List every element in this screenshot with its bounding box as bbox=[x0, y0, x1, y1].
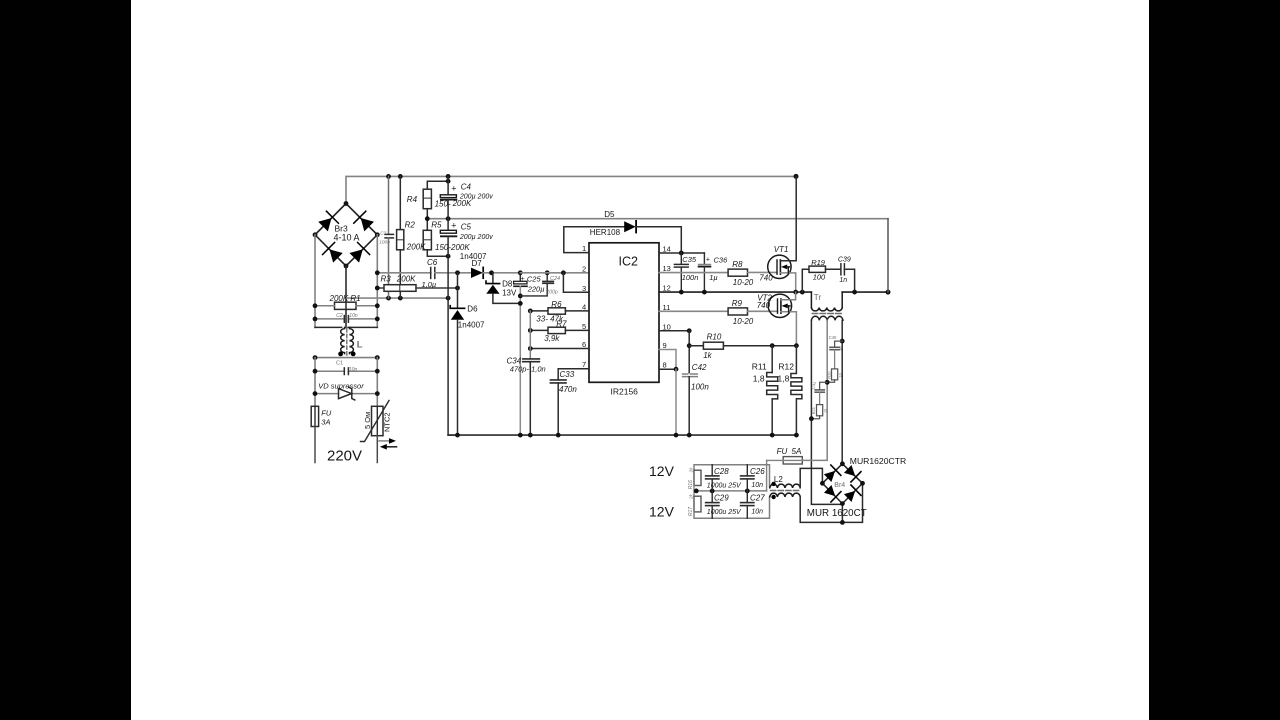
Br3 diode lower-left bbox=[323, 242, 344, 263]
capacitor C3 bbox=[388, 176, 390, 234]
svg-text:10-20: 10-20 bbox=[733, 317, 754, 326]
node mid/C26 bbox=[745, 489, 750, 494]
svg-text:220V: 220V bbox=[327, 448, 362, 465]
node mid/C36 bbox=[702, 290, 707, 295]
node Br4 top bbox=[840, 461, 845, 466]
node L polarity dot right bbox=[351, 352, 356, 357]
wire pin6 bbox=[530, 348, 589, 350]
svg-text:C36: C36 bbox=[714, 255, 729, 264]
zener D8 13V bbox=[492, 273, 494, 284]
node L2 top polarity dot bbox=[771, 482, 775, 486]
node C1 left bbox=[313, 369, 318, 374]
op-amp IC2 body bbox=[589, 243, 659, 382]
node gnd/R11 bbox=[770, 433, 775, 438]
capacitor C25 electrolytic bbox=[519, 273, 521, 282]
svg-text:12V: 12V bbox=[649, 504, 675, 520]
Br4 diode lower-left bbox=[823, 484, 841, 502]
svg-text:8: 8 bbox=[663, 361, 667, 370]
capacitor C34 bbox=[523, 358, 540, 360]
capacitor C28 bbox=[711, 465, 713, 476]
svg-text:1000u 25V: 1000u 25V bbox=[707, 509, 742, 516]
thermistor NTC2 bbox=[372, 406, 384, 435]
svg-text:VD supressor: VD supressor bbox=[318, 381, 364, 390]
svg-text:+: + bbox=[451, 183, 456, 193]
transistor VT1 mosfet bbox=[768, 255, 791, 278]
transformer Tr primary bbox=[810, 292, 812, 308]
node R3 left rail bbox=[375, 286, 380, 291]
svg-text:10n: 10n bbox=[751, 482, 763, 489]
wire pin13 gate row VT1 bbox=[659, 272, 728, 274]
svg-text:12: 12 bbox=[663, 284, 671, 293]
wire 12V block top bbox=[694, 465, 770, 487]
svg-text:VT1: VT1 bbox=[774, 245, 789, 254]
svg-text:D6: D6 bbox=[467, 305, 478, 314]
wire right AC rail upper bbox=[376, 235, 378, 328]
capacitor C41 bbox=[820, 382, 828, 389]
svg-text:FU: FU bbox=[321, 409, 332, 418]
svg-text:1,8: 1,8 bbox=[778, 373, 790, 383]
bridge Br3 diamond outline bbox=[315, 204, 377, 267]
svg-text:200K R1: 200K R1 bbox=[329, 294, 361, 303]
svg-text:C25: C25 bbox=[527, 275, 542, 284]
node Br4 left bbox=[820, 481, 825, 486]
node C1 right bbox=[375, 369, 380, 374]
resistor R7 bbox=[530, 329, 548, 331]
transformer Tr secondary right bbox=[827, 316, 843, 320]
node main/D8 bbox=[489, 270, 494, 275]
node Br3 right bbox=[375, 232, 380, 237]
svg-text:C28: C28 bbox=[714, 467, 729, 476]
svg-text:4-10 A: 4-10 A bbox=[334, 233, 360, 243]
svg-text:1µ: 1µ bbox=[709, 273, 718, 282]
resistor R10 bbox=[689, 345, 703, 347]
node y298/bus bbox=[446, 296, 451, 301]
node C42/R10 bbox=[687, 343, 692, 348]
svg-text:100: 100 bbox=[813, 272, 826, 281]
node R7 left bbox=[528, 328, 533, 333]
node Br3 left bbox=[313, 232, 318, 237]
node snubber mid on center tap bbox=[825, 380, 830, 385]
svg-text:C1: C1 bbox=[336, 361, 343, 367]
wire FU to mid wire corner bbox=[766, 460, 768, 491]
svg-text:150-: 150- bbox=[435, 200, 451, 209]
svg-text:1,8: 1,8 bbox=[753, 373, 765, 383]
resistor R2 bbox=[399, 176, 401, 229]
node y298/C3 bbox=[386, 296, 391, 301]
fuse FU 5A output bbox=[783, 457, 802, 464]
node pin8 bbox=[674, 367, 679, 372]
wire RC chain vertical bbox=[529, 311, 531, 359]
svg-text:10n: 10n bbox=[751, 509, 763, 516]
wire left rail to 220V bbox=[314, 427, 316, 463]
svg-text:R17: R17 bbox=[688, 507, 694, 516]
inductor L choke top wire bbox=[315, 326, 342, 328]
capacitor C39 bbox=[840, 264, 842, 275]
node top rail / R2 bbox=[398, 174, 403, 179]
wire Tr secondary right lead bbox=[841, 320, 843, 464]
svg-text:D5: D5 bbox=[604, 210, 615, 219]
capacitor C29 bbox=[711, 491, 713, 503]
node choke bottom left bbox=[313, 355, 318, 360]
svg-text:C2: C2 bbox=[336, 313, 343, 319]
svg-text:C42: C42 bbox=[692, 363, 707, 372]
node mid rail R4R5 bbox=[425, 216, 430, 221]
wire R1 row bbox=[315, 305, 335, 307]
svg-text:NTC2: NTC2 bbox=[382, 412, 391, 432]
wire pin9 to pin8 bbox=[659, 350, 676, 370]
node main/C24 bbox=[545, 270, 550, 275]
svg-text:+: + bbox=[451, 220, 456, 230]
svg-text:200K: 200K bbox=[406, 243, 426, 252]
resistor R17 bbox=[694, 496, 701, 512]
inductor L2 core dashes bbox=[771, 490, 801, 492]
svg-text:6: 6 bbox=[582, 340, 586, 349]
svg-text:IC2: IC2 bbox=[619, 255, 639, 269]
svg-text:C35: C35 bbox=[682, 255, 697, 264]
svg-text:740: 740 bbox=[759, 274, 773, 283]
node mid/C39 bbox=[852, 290, 857, 295]
wire main HV mid y=272.8 bbox=[377, 272, 431, 274]
svg-text:4: 4 bbox=[582, 302, 586, 311]
wire mid rail right segment bbox=[842, 291, 888, 293]
svg-text:R20: R20 bbox=[826, 371, 831, 379]
node mid/C35 bbox=[679, 290, 684, 295]
capacitor C40 bbox=[835, 341, 843, 347]
wire main to pin2 bbox=[520, 272, 589, 274]
svg-text:1: 1 bbox=[582, 244, 586, 253]
svg-text:HER108: HER108 bbox=[590, 228, 621, 237]
resistor R3 bbox=[377, 287, 384, 289]
wire Br4 bottom vertex drop bbox=[841, 504, 843, 523]
svg-text:R12: R12 bbox=[778, 361, 794, 371]
svg-text:470n: 470n bbox=[559, 385, 577, 394]
node R10/R11 bbox=[770, 343, 775, 348]
svg-text:740: 740 bbox=[757, 301, 771, 310]
node gnd/R12 VT2 bbox=[794, 433, 799, 438]
svg-text:13: 13 bbox=[663, 264, 671, 273]
node mid/VT1 source bbox=[793, 290, 798, 295]
node snubber bottom on left lead bbox=[809, 416, 814, 421]
node Br3 bottom bbox=[344, 264, 349, 269]
svg-text:D8: D8 bbox=[502, 279, 513, 288]
fuse FU 3A bbox=[311, 406, 318, 426]
svg-text:2k: 2k bbox=[689, 493, 694, 500]
node top rail / VT1 drain bbox=[794, 174, 799, 179]
inductor L right winding bbox=[350, 327, 354, 353]
wire pin1 loop to D5 bbox=[564, 227, 624, 253]
svg-text:200µ 200v: 200µ 200v bbox=[459, 234, 493, 241]
node gnd/D6 bbox=[455, 433, 460, 438]
node bottom rail / Br4 bottom bbox=[840, 520, 845, 525]
wire negative pickup y=298 bbox=[347, 297, 449, 299]
inductor L2 top winding bbox=[770, 484, 800, 488]
svg-text:C6: C6 bbox=[427, 258, 438, 267]
Br4 diode lower-right bbox=[843, 485, 861, 503]
node R3 right / D6 line bbox=[455, 286, 460, 291]
wire 12V block bottom bbox=[694, 497, 770, 518]
node R6 left bbox=[528, 309, 533, 314]
right black pillar bar bbox=[1149, 0, 1280, 720]
svg-text:200K: 200K bbox=[396, 275, 416, 284]
svg-text:C3: C3 bbox=[380, 231, 386, 237]
inductor L left winding bbox=[341, 327, 345, 353]
wire pin10 bbox=[659, 330, 689, 332]
svg-text:D7: D7 bbox=[472, 259, 483, 268]
node L polarity dot left bbox=[338, 352, 343, 357]
svg-text:10: 10 bbox=[824, 409, 828, 413]
wire Tr center tap bbox=[802, 320, 827, 460]
node R10/VT2 source R12 bbox=[794, 343, 799, 348]
resistor R20 bbox=[832, 369, 838, 380]
node C2 right bbox=[375, 317, 380, 322]
node gnd/C34 line bbox=[528, 433, 533, 438]
node mid/right drop rail bbox=[886, 290, 891, 295]
wire C42 line bbox=[688, 331, 690, 374]
capacitor C5 electrolytic bbox=[440, 230, 456, 233]
svg-text:14: 14 bbox=[663, 244, 671, 253]
wire right drop rail from mid rail y218 bbox=[887, 219, 889, 292]
node C25 line / C24 return bbox=[518, 294, 523, 299]
node mid/R19 bbox=[800, 290, 805, 295]
node main/D6 bbox=[455, 270, 460, 275]
node gnd/C33 line bbox=[556, 433, 561, 438]
svg-text:100p: 100p bbox=[547, 290, 558, 296]
capacitor C27 bbox=[746, 491, 748, 503]
capacitor C33 bbox=[550, 379, 566, 381]
svg-text:1n: 1n bbox=[838, 346, 843, 351]
svg-text:2: 2 bbox=[582, 264, 586, 273]
svg-text:C4: C4 bbox=[461, 182, 472, 191]
svg-text:9: 9 bbox=[663, 341, 667, 350]
Br3 diode lower-right bbox=[348, 242, 369, 263]
node L2 bottom polarity dot bbox=[771, 495, 775, 499]
node gnd/C42 line bbox=[687, 433, 692, 438]
capacitor C4 electrolytic bbox=[440, 195, 456, 198]
arrow mains left bbox=[385, 446, 397, 448]
resistor R16 bbox=[694, 470, 701, 485]
node C25 line / D8 bbox=[518, 301, 523, 306]
svg-text:100n: 100n bbox=[379, 240, 390, 246]
wire bridge minus drop through R1 bbox=[345, 266, 347, 327]
svg-text:10n: 10n bbox=[349, 313, 358, 319]
svg-text:100n: 100n bbox=[691, 382, 709, 391]
node VD left bbox=[313, 391, 318, 396]
svg-text:1000u 25V: 1000u 25V bbox=[707, 483, 742, 490]
node Br3 top bbox=[344, 201, 349, 206]
svg-text:C39: C39 bbox=[838, 256, 851, 263]
Br4 diode upper-right bbox=[843, 464, 861, 482]
svg-text:11: 11 bbox=[663, 303, 671, 312]
wire pin8 bbox=[659, 368, 676, 370]
wire 12V block mid bbox=[694, 490, 767, 492]
wire L2 bottom right to bottom rail bbox=[800, 483, 862, 522]
svg-text:10: 10 bbox=[839, 373, 843, 377]
wire right rail lower bbox=[376, 358, 378, 407]
wire pin8 line to ground bbox=[675, 369, 677, 435]
wire ground rail bbox=[448, 434, 796, 436]
capacitor C1 bbox=[315, 370, 344, 372]
arrow mains right bbox=[379, 440, 390, 442]
Br4 diode upper-left bbox=[823, 465, 841, 483]
transformer Tr core dashes bbox=[812, 313, 842, 315]
node main/C25 bbox=[518, 270, 523, 275]
capacitor C2 bbox=[315, 318, 344, 320]
bridge Br4 diamond bbox=[822, 464, 862, 504]
wire D5 to pin14 bbox=[636, 227, 681, 253]
svg-text:L2: L2 bbox=[774, 475, 783, 484]
svg-text:R7: R7 bbox=[556, 320, 567, 329]
svg-text:R4: R4 bbox=[407, 195, 418, 204]
svg-text:+: + bbox=[706, 257, 710, 264]
svg-text:R9: R9 bbox=[732, 299, 743, 308]
svg-text:R8: R8 bbox=[732, 260, 743, 269]
wire bus to ground corner bbox=[448, 298, 457, 435]
svg-text:7: 7 bbox=[582, 360, 586, 369]
svg-text:2k: 2k bbox=[689, 467, 694, 474]
svg-text:C29: C29 bbox=[714, 494, 729, 503]
svg-text:+: + bbox=[521, 276, 525, 283]
resistor R11 meander bbox=[771, 346, 773, 373]
node pin10/C42 line bbox=[687, 328, 692, 333]
resistor R12 meander bbox=[791, 346, 802, 435]
transformer Tr secondary left bbox=[811, 316, 827, 320]
wire top HV rail bbox=[346, 176, 796, 203]
inductor L2 bottom winding bbox=[770, 493, 800, 497]
wire left AC rail upper bbox=[314, 235, 316, 328]
diode D7 bbox=[471, 268, 483, 278]
svg-text:1k: 1k bbox=[703, 351, 712, 360]
svg-text:3: 3 bbox=[582, 284, 586, 293]
wire pin14 row bbox=[659, 252, 704, 254]
svg-text:C5: C5 bbox=[461, 223, 472, 232]
svg-text:FU: FU bbox=[777, 447, 788, 456]
node snubber top on right lead bbox=[840, 339, 845, 344]
svg-text:5A: 5A bbox=[792, 447, 802, 456]
node gnd/pin8 line bbox=[674, 433, 679, 438]
capacitor C42 bbox=[683, 373, 698, 375]
resistor R5 bbox=[423, 230, 431, 250]
resistor R19 bbox=[802, 269, 809, 292]
svg-text:200µ 200v: 200µ 200v bbox=[459, 194, 493, 201]
svg-text:Br4: Br4 bbox=[834, 482, 845, 489]
svg-text:100n: 100n bbox=[682, 273, 699, 282]
wire L2 top right to Br4 left bbox=[800, 468, 822, 487]
svg-text:R3: R3 bbox=[381, 275, 392, 284]
node R4 top on bus bbox=[446, 179, 451, 184]
node Br4 bottom bbox=[840, 501, 845, 506]
node main/right rail bbox=[375, 270, 380, 275]
svg-text:5: 5 bbox=[582, 322, 586, 331]
svg-text:C27: C27 bbox=[750, 494, 765, 503]
resistor R9 bbox=[728, 308, 747, 315]
capacitor C35 bbox=[680, 253, 682, 264]
svg-text:220µ: 220µ bbox=[527, 284, 545, 293]
resistor R6 bbox=[530, 310, 548, 312]
node mid/C28 bbox=[710, 489, 715, 494]
svg-text:R5: R5 bbox=[431, 221, 442, 230]
svg-text:3A: 3A bbox=[321, 418, 330, 427]
svg-text:1n: 1n bbox=[839, 277, 847, 284]
wire negative bus x=448 bbox=[447, 176, 449, 194]
wire pin7 to C33 bbox=[558, 369, 589, 380]
wire pin3 drop bbox=[563, 273, 589, 293]
svg-text:Tr: Tr bbox=[814, 292, 822, 302]
capacitor C26 bbox=[746, 465, 748, 476]
wire left rail lower bbox=[314, 358, 316, 407]
svg-text:C24: C24 bbox=[550, 276, 560, 282]
svg-text:10n: 10n bbox=[349, 367, 358, 373]
svg-text:1n4007: 1n4007 bbox=[458, 321, 485, 330]
node C2 left bbox=[313, 317, 318, 322]
wire right rail to arrows bbox=[376, 436, 378, 463]
node gnd/C25 line bbox=[518, 433, 523, 438]
svg-text:R16: R16 bbox=[688, 480, 694, 489]
svg-text:3,9k: 3,9k bbox=[544, 334, 560, 343]
resistor R1 bbox=[335, 302, 357, 309]
node VD right bbox=[375, 391, 380, 396]
wire mid rail pin12 bbox=[659, 291, 811, 293]
node mid rail bus bbox=[446, 216, 451, 221]
node y298/R2 bbox=[398, 296, 403, 301]
svg-text:1,0µ: 1,0µ bbox=[422, 280, 437, 289]
svg-text:MUR1620CTR: MUR1620CTR bbox=[850, 456, 906, 466]
node choke bottom right bbox=[375, 355, 380, 360]
svg-text:10-20: 10-20 bbox=[733, 278, 754, 287]
transistor VT2 mosfet bbox=[768, 294, 791, 317]
svg-text:12V: 12V bbox=[649, 463, 675, 479]
inductor L core dashed bbox=[346, 329, 348, 357]
svg-text:C40: C40 bbox=[829, 335, 837, 340]
node Br4 right bbox=[860, 481, 865, 486]
Br3 diode upper-left bbox=[317, 211, 338, 232]
left black pillar bar bbox=[0, 0, 131, 720]
svg-text:R10: R10 bbox=[707, 333, 722, 342]
svg-text:C26: C26 bbox=[750, 467, 765, 476]
capacitor C36 electrolytic bbox=[703, 253, 705, 264]
wire choke bottom bbox=[315, 357, 377, 359]
wire Tr secondary left lead bbox=[811, 320, 842, 504]
node pin6/RC chain bbox=[528, 346, 533, 351]
node R1 left bbox=[313, 303, 318, 308]
svg-text:IR2156: IR2156 bbox=[611, 387, 639, 397]
svg-text:R11: R11 bbox=[752, 361, 767, 371]
svg-text:10: 10 bbox=[663, 322, 671, 331]
node R5 bottom on bus bbox=[446, 254, 451, 259]
node main/pin3 drop bbox=[561, 270, 566, 275]
diode VD suppressor bbox=[315, 393, 339, 395]
svg-text:R6: R6 bbox=[551, 300, 562, 309]
svg-text:5 Ом: 5 Ом bbox=[363, 412, 372, 429]
capacitor C6 bbox=[430, 268, 432, 279]
resistor R21 bbox=[817, 405, 823, 416]
svg-text:R2: R2 bbox=[405, 221, 416, 230]
svg-text:13V: 13V bbox=[502, 288, 517, 297]
diode D5 HER108 bbox=[624, 221, 636, 232]
wire pin11 gate row VT2 bbox=[659, 310, 728, 312]
svg-text:R19: R19 bbox=[811, 258, 826, 267]
node mid/R1617 bbox=[694, 489, 699, 494]
svg-text:R21: R21 bbox=[811, 406, 816, 414]
svg-text:C33: C33 bbox=[560, 370, 575, 379]
svg-text:L: L bbox=[357, 340, 363, 351]
svg-text:MUR 1620CT: MUR 1620CT bbox=[807, 508, 867, 519]
svg-text:470p- 1,0n: 470p- 1,0n bbox=[510, 364, 546, 373]
capacitor C24 bbox=[546, 273, 548, 281]
node pin14/C35 bbox=[679, 251, 684, 256]
node top rail / C3 bbox=[386, 174, 391, 179]
resistor R4 bbox=[427, 181, 448, 189]
resistor R8 bbox=[728, 269, 747, 276]
